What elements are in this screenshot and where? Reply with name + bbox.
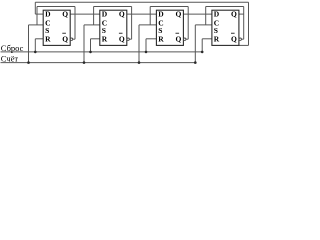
svg-text:Q: Q <box>62 34 68 43</box>
svg-text:R: R <box>214 34 220 43</box>
svg-text:D: D <box>214 9 220 18</box>
svg-text:Сброс: Сброс <box>1 43 24 53</box>
svg-text:Q: Q <box>231 9 237 18</box>
svg-text:Q: Q <box>176 9 182 18</box>
svg-text:D: D <box>158 9 164 18</box>
svg-text:D: D <box>45 9 51 18</box>
svg-text:D: D <box>102 9 108 18</box>
svg-text:R: R <box>102 34 108 43</box>
svg-text:Счёт: Счёт <box>1 53 19 63</box>
svg-text:Q: Q <box>231 34 237 43</box>
svg-text:R: R <box>158 34 164 43</box>
svg-text:R: R <box>45 34 51 43</box>
svg-text:Q: Q <box>62 9 68 18</box>
svg-text:Q: Q <box>119 34 125 43</box>
svg-text:Q: Q <box>119 9 125 18</box>
svg-text:Q: Q <box>176 34 182 43</box>
